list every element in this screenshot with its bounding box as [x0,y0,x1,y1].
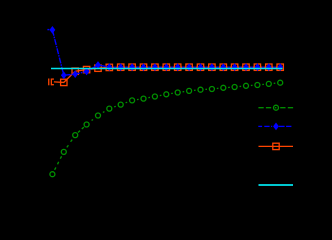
orange first-point caps [49,79,54,86]
green circle markers [50,80,283,177]
orange solid data line [54,67,280,82]
legend: blue entry [258,123,291,131]
cyan exact-value line (topmost) [51,68,283,70]
blue flat dashes [114,66,276,68]
green dashed data line (Rayleigh quotient curve) [55,83,276,170]
blue dash-dot early segment [52,30,109,75]
legend: cyan entry [259,184,294,186]
orange square markers [61,64,284,86]
blue diamond markers [50,26,284,79]
blue stray dash left of first point [47,29,49,31]
legend: green entry [258,105,293,110]
legend: orange entry [259,143,294,149]
